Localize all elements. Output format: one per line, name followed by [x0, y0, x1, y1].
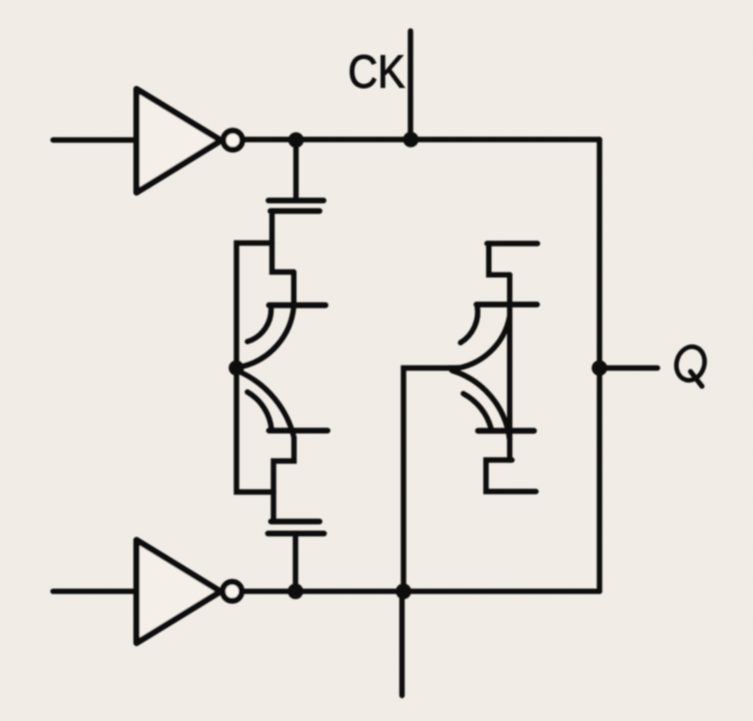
- node: U2 output junction: [288, 584, 304, 600]
- transistor M4 gate bar: [268, 531, 324, 537]
- transistor M6 inner arc: [463, 394, 491, 429]
- transistor M2 inner arc: [247, 307, 271, 342]
- bubble of U1: [223, 131, 242, 150]
- transistor M1 gate lead: [293, 140, 298, 201]
- label Q ring: [672, 343, 708, 384]
- label Q tail: [691, 372, 703, 387]
- transistor M1 gate bar: [269, 198, 324, 204]
- wire: left bypass loop: [237, 243, 274, 492]
- wire: CK vertical: [408, 31, 413, 140]
- node: feedback junction: [396, 584, 412, 600]
- inverter U2: [137, 540, 221, 643]
- transistor M1 channel bar: [271, 208, 320, 214]
- wire: bottom stub: [399, 591, 404, 695]
- transistor M3 inner arc: [247, 392, 271, 430]
- wire: bottom input: [53, 589, 136, 594]
- transistor M5 inner arc: [461, 306, 478, 343]
- inverter U1: [137, 89, 222, 193]
- node: U1 output junction: [288, 132, 304, 148]
- bubble of U2: [223, 582, 242, 601]
- svg-text:CK: CK: [348, 46, 405, 98]
- transistor M5 gate bar: [477, 302, 538, 308]
- transistor M3 channel arc and source lead: [241, 373, 294, 522]
- node: CK junction: [403, 132, 419, 148]
- transistor M5 channel arc: [452, 317, 509, 369]
- transistor M4 channel bar: [271, 519, 320, 525]
- wire: top rail: [244, 137, 599, 142]
- transistor M5 drain lead with step: [489, 244, 510, 275]
- transistor M6 source step and bottom lead: [486, 460, 536, 492]
- transistor M1 source lead with step: [272, 211, 294, 272]
- transistor M4 gate lead: [293, 534, 298, 592]
- transistor M2 drain lead and channel arc: [240, 272, 294, 367]
- node Q: [592, 360, 608, 376]
- transistor M6 channel arc: [452, 371, 510, 439]
- wire: Q stub: [600, 365, 658, 370]
- node: latch common node: [229, 360, 244, 375]
- wire: top input: [53, 137, 136, 142]
- transistor M2 gate bar: [269, 302, 326, 308]
- transistor M5 top lead: [487, 241, 538, 246]
- wire: right rail: [597, 140, 602, 592]
- wire: bottom rail: [244, 589, 600, 594]
- transistor M3 gate bar: [269, 428, 328, 434]
- wire: right channel vertical: [507, 275, 512, 460]
- node: pass-gate tap wedge: [446, 365, 462, 371]
- transistor M6 gate bar: [478, 428, 534, 434]
- wire: feedback riser: [404, 368, 453, 591]
